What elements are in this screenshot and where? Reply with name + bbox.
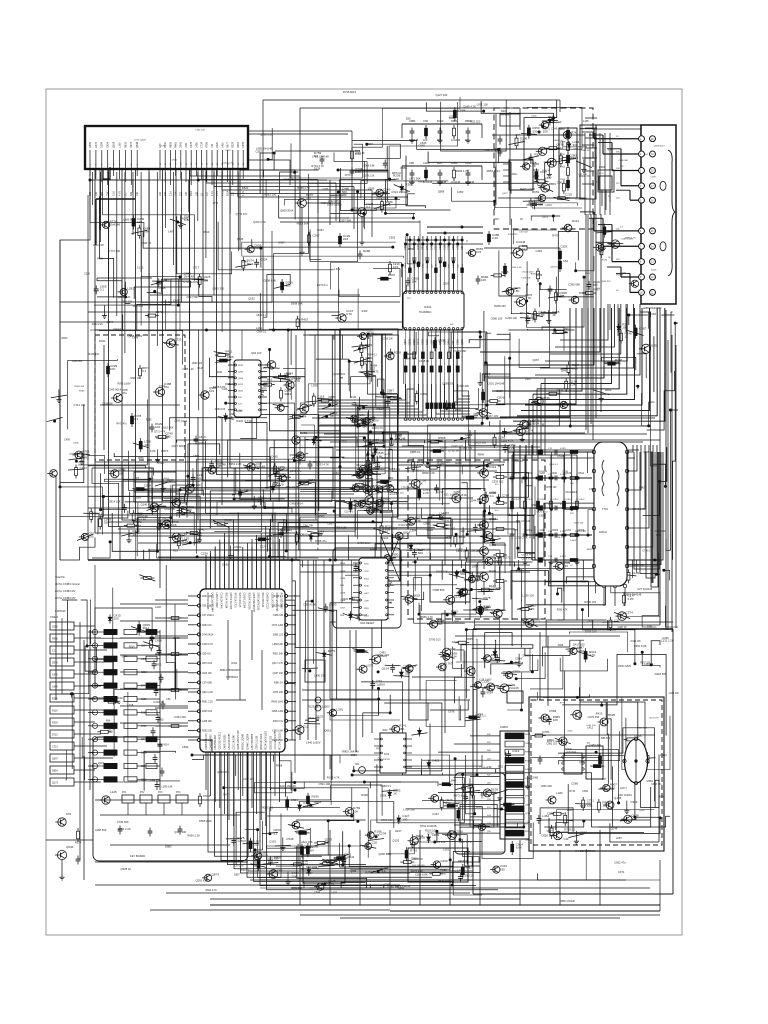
svg-text:R800: R800 [658,794,665,798]
svg-text:C472: C472 [95,141,98,148]
svg-text:Q858 100: Q858 100 [643,452,654,454]
svg-text:D722: D722 [52,734,58,737]
svg-text:C572 1u50V: C572 1u50V [134,140,147,142]
svg-text:100: 100 [155,425,160,429]
svg-text:IC8xx: IC8xx [511,173,518,176]
svg-text:R124/1u50V/L263: R124/1u50V/L263 [266,730,268,749]
svg-text:C384: C384 [410,528,417,532]
svg-text:C513 1K: C513 1K [164,507,175,511]
svg-text:R291: R291 [501,110,508,113]
svg-text:Q94 103: Q94 103 [251,351,262,355]
svg-text:Q246 103: Q246 103 [550,267,560,269]
svg-text:CN51: CN51 [650,313,657,316]
svg-text:R625: R625 [608,713,616,717]
svg-text:Q463 2.2K: Q463 2.2K [253,220,266,224]
svg-text:Q973: Q973 [579,761,586,764]
svg-text:L326: L326 [449,114,455,118]
svg-text:100: 100 [144,443,149,447]
svg-text:C20 47u: C20 47u [344,512,353,514]
svg-text:C468/47u/C733: C468/47u/C733 [206,733,208,750]
svg-text:1K: 1K [393,792,397,796]
svg-text:R501 56K: R501 56K [273,654,284,656]
svg-text:R508: R508 [438,436,446,440]
svg-text:1u50V: 1u50V [620,273,626,275]
svg-text:CAUTION: CAUTION [412,858,423,861]
svg-text:D713: D713 [417,339,420,345]
svg-text:R906: R906 [361,793,368,797]
svg-text:C221/9014/C613: C221/9014/C613 [220,731,222,749]
svg-text:R778: R778 [560,703,566,705]
svg-text:L457/330/D555: L457/330/D555 [252,733,254,749]
svg-text:D25: D25 [437,161,442,165]
svg-text:Q912 2.2K: Q912 2.2K [202,692,213,694]
svg-text:R572: R572 [334,856,342,860]
svg-text:330: 330 [193,486,198,490]
svg-text:R258 0.1: R258 0.1 [389,467,400,471]
svg-text:C478: C478 [190,141,193,148]
svg-text:6.8K: 6.8K [513,289,519,293]
svg-text:C598 56K: C598 56K [433,588,445,592]
svg-text:R247 1N4148: R247 1N4148 [279,784,296,788]
svg-text:D454 47u: D454 47u [202,625,213,627]
svg-text:L182: L182 [556,791,563,795]
svg-text:R672 6.8K: R672 6.8K [454,794,467,798]
svg-text:C999: C999 [132,336,138,339]
svg-text:D207/100/C15: D207/100/C15 [238,593,240,609]
svg-text:R52 222: R52 222 [470,120,481,124]
svg-text:9014: 9014 [227,190,230,196]
svg-text:R351 2.2K: R351 2.2K [229,462,242,466]
svg-text:Q994: Q994 [660,753,667,757]
svg-text:C151: C151 [432,812,439,816]
svg-text:R649: R649 [181,217,189,221]
svg-text:L874: L874 [334,267,340,271]
svg-text:PX3: PX3 [158,792,163,794]
svg-text:R934: R934 [286,371,294,375]
svg-text:2.2K: 2.2K [169,191,172,196]
svg-text:C119 103: C119 103 [521,278,531,280]
svg-text:D131 9014: D131 9014 [398,523,412,527]
svg-text:D949: D949 [448,339,451,345]
svg-text:C952 47u: C952 47u [614,860,626,864]
svg-text:D595: D595 [533,618,541,622]
svg-text:R341: R341 [99,339,106,343]
svg-text:D752: D752 [413,339,416,345]
svg-text:C96 10K: C96 10K [303,524,314,528]
svg-text:C183 0.1: C183 0.1 [381,784,392,788]
svg-text:L395 6.8K: L395 6.8K [162,786,173,789]
svg-text:L949 1K: L949 1K [355,151,365,155]
svg-text:C993: C993 [630,800,638,804]
svg-text:C199/10K/C441: C199/10K/C441 [220,593,222,610]
svg-text:Q885 2.2K: Q885 2.2K [118,295,131,299]
svg-text:R358 6.8K: R358 6.8K [290,453,303,457]
svg-text:9014: 9014 [261,854,268,858]
svg-text:D463 4.7K: D463 4.7K [223,162,234,164]
svg-text:Q191: Q191 [269,840,276,844]
svg-text:Q282: Q282 [198,441,205,445]
svg-text:4.7K: 4.7K [515,660,521,664]
svg-text:C673 100: C673 100 [381,818,393,822]
svg-text:R117/9014/L928: R117/9014/L928 [206,593,208,611]
svg-text:C741: C741 [159,384,166,388]
svg-text:6.2KV: 6.2KV [560,504,567,506]
svg-text:L68 2.2K: L68 2.2K [575,529,586,533]
svg-text:L889 6.8K: L889 6.8K [273,644,284,646]
svg-text:1N4148: 1N4148 [508,686,519,690]
svg-text:D570: D570 [52,662,58,665]
svg-text:D297: D297 [440,446,448,450]
svg-text:C764 9014: C764 9014 [403,664,417,668]
svg-text:Q903: Q903 [515,134,521,136]
svg-text:56K: 56K [101,191,104,196]
svg-text:L811: L811 [525,796,530,798]
svg-text:R280: R280 [52,698,58,701]
svg-text:Q106: Q106 [113,141,116,148]
svg-text:R874: R874 [161,449,169,453]
svg-text:R135 100: R135 100 [89,353,100,356]
svg-text:L933: L933 [312,384,318,388]
svg-text:C745 222: C745 222 [643,303,653,305]
svg-text:Q897: Q897 [404,338,407,345]
svg-text:R972: R972 [156,664,162,667]
svg-text:D655 2.2K: D655 2.2K [199,819,212,823]
svg-text:L773: L773 [213,202,219,205]
svg-text:L940 1u50V: L940 1u50V [306,741,321,745]
svg-text:L426: L426 [195,142,198,148]
svg-text:L652 100: L652 100 [586,725,596,727]
svg-text:Q943: Q943 [238,378,244,380]
svg-text:C445 4.7K: C445 4.7K [521,555,532,557]
svg-text:103: 103 [362,420,367,424]
svg-text:C333 222: C333 222 [492,480,504,484]
svg-text:L195 9014: L195 9014 [566,751,577,753]
svg-text:56K: 56K [399,727,404,731]
svg-text:Q568 2.2K: Q568 2.2K [260,132,273,136]
svg-text:R19: R19 [494,218,499,221]
svg-text:C27 6.8K: C27 6.8K [490,587,501,591]
svg-text:L159 100: L159 100 [523,594,535,598]
svg-text:L977: L977 [472,564,478,568]
svg-text:R228: R228 [232,141,235,148]
svg-text:R374: R374 [75,841,82,845]
svg-text:C481 1N4148: C481 1N4148 [312,155,329,159]
svg-text:C959 6.8K: C959 6.8K [303,603,316,607]
svg-text:1u50V: 1u50V [376,682,385,686]
svg-text:C573 1u50: C573 1u50 [272,625,284,627]
svg-text:0.1: 0.1 [142,369,147,373]
svg-text:Q173: Q173 [52,782,59,785]
svg-text:R14 1u50V: R14 1u50V [357,465,369,467]
svg-text:IC02: IC02 [382,728,388,732]
svg-text:R694: R694 [367,142,374,146]
svg-text:R651/4.7K/Q94: R651/4.7K/Q94 [224,593,226,610]
svg-text:PX: PX [136,477,140,480]
svg-text:R989: R989 [294,594,301,598]
svg-text:C647 103: C647 103 [486,414,498,418]
svg-text:R161 100: R161 100 [265,192,277,196]
svg-text:R497: R497 [593,288,601,292]
svg-text:Q328: Q328 [409,338,412,345]
svg-text:103: 103 [476,250,481,254]
svg-text:T701: T701 [602,507,608,511]
svg-text:10K: 10K [136,191,139,196]
svg-text:R877: R877 [227,141,230,148]
svg-text:C836 56K: C836 56K [102,402,113,405]
svg-text:10K: 10K [185,191,188,196]
svg-text:D388 1K: D388 1K [581,150,590,152]
svg-text:D192 2.2K: D192 2.2K [92,323,104,326]
svg-text:C654 4.7K: C654 4.7K [479,765,492,769]
svg-text:Q287: Q287 [532,358,539,362]
svg-text:R741: R741 [571,131,578,135]
svg-text:R86 56K: R86 56K [601,737,611,740]
svg-text:Q334 9014: Q334 9014 [341,597,355,601]
svg-text:Q843 4.7K: Q843 4.7K [632,507,645,511]
svg-text:C236: C236 [662,636,669,640]
svg-text:C656 330: C656 330 [273,615,284,617]
svg-text:L393 330: L393 330 [458,384,470,388]
svg-text:C863: C863 [470,549,478,553]
svg-text:L521: L521 [185,142,188,148]
svg-text:R659: R659 [553,530,559,532]
svg-text:Q646: Q646 [66,845,74,849]
svg-text:10K: 10K [616,168,620,170]
svg-text:R733 222: R733 222 [508,234,518,236]
svg-text:Q965/1N4148/Q58: Q965/1N4148/Q58 [252,593,254,613]
svg-text:D749 9014: D749 9014 [202,634,214,636]
svg-text:D473: D473 [476,805,483,809]
svg-text:C519: C519 [557,454,564,458]
svg-text:R108 2.2K: R108 2.2K [272,740,283,742]
svg-text:2.2K: 2.2K [608,150,613,152]
svg-text:R876 1u50V: R876 1u50V [118,383,132,386]
svg-text:D275: D275 [328,649,336,653]
svg-text:C482: C482 [332,471,339,475]
svg-text:C51: C51 [66,812,72,816]
svg-text:L132: L132 [312,866,319,870]
svg-text:D465: D465 [271,455,278,459]
svg-text:1K: 1K [330,414,334,418]
svg-text:2.2K: 2.2K [492,236,498,240]
svg-text:OTH: OTH [136,497,141,500]
svg-text:C767: C767 [502,493,510,497]
svg-text:D204: D204 [560,167,566,169]
svg-text:D227: D227 [395,829,402,833]
svg-text:C669 222: C669 222 [192,362,203,365]
svg-text:C949 0.1: C949 0.1 [553,140,563,142]
svg-text:R400: R400 [225,518,233,522]
svg-text:C27 1N4148: C27 1N4148 [637,587,653,591]
svg-text:R390: R390 [451,161,458,165]
svg-text:Q885 1K: Q885 1K [410,450,421,454]
svg-text:L908: L908 [525,840,531,842]
svg-text:L915: L915 [585,273,591,275]
svg-text:R408 1u50V: R408 1u50V [520,187,535,191]
svg-text:Q357 56K: Q357 56K [339,219,351,223]
svg-text:C374: C374 [626,611,634,615]
svg-text:D59 9014: D59 9014 [500,115,510,117]
svg-text:C353: C353 [457,190,464,194]
svg-text:4.7K: 4.7K [118,191,121,196]
svg-text:R146: R146 [602,259,608,261]
svg-text:C55: C55 [277,869,283,873]
svg-text:Q631: Q631 [238,391,244,393]
svg-text:R23: R23 [173,548,178,552]
svg-text:4.7K: 4.7K [211,191,214,196]
svg-text:D580: D580 [172,159,178,161]
svg-text:1N4148: 1N4148 [423,180,433,184]
svg-text:1u50V: 1u50V [570,540,577,542]
svg-text:L155: L155 [118,142,121,148]
svg-text:Q609 9014: Q609 9014 [280,208,294,212]
svg-text:Q290 6.8K: Q290 6.8K [378,852,391,856]
svg-text:C850: C850 [567,730,573,732]
svg-text:C841 103: C841 103 [122,301,133,304]
svg-text:R473: R473 [238,384,244,386]
svg-text:R232: R232 [146,419,152,422]
svg-text:Q928/1u50V/C798: Q928/1u50V/C798 [238,730,240,750]
svg-text:10K: 10K [387,392,392,396]
svg-text:C213 2.2K: C213 2.2K [93,244,105,247]
svg-text:L450: L450 [525,822,531,824]
svg-text:L687: L687 [616,836,622,840]
svg-text:R180 56K: R180 56K [531,273,541,275]
svg-text:L254: L254 [430,339,433,345]
svg-text:L353: L353 [370,547,376,551]
svg-text:C714 1u50V: C714 1u50V [183,280,198,284]
svg-text:L602 222: L602 222 [458,588,470,592]
svg-text:C441: C441 [426,244,429,250]
svg-text:R408: R408 [97,257,103,260]
svg-text:D942: D942 [639,488,645,490]
svg-text:R421: R421 [225,350,233,354]
svg-text:L613: L613 [546,203,552,207]
svg-text:Q663 222: Q663 222 [601,281,611,283]
svg-text:C310 1K: C310 1K [153,700,164,704]
svg-text:C741 6.8K: C741 6.8K [272,730,283,732]
svg-text:C85: C85 [409,161,414,165]
svg-text:0.1: 0.1 [134,417,139,421]
svg-text:C645: C645 [418,143,425,147]
svg-text:PX1: PX1 [122,792,127,794]
svg-text:56K: 56K [593,283,598,287]
svg-text:C593 1K: C593 1K [141,241,152,245]
svg-text:D204: D204 [465,433,473,437]
svg-text:TDA8361N: TDA8361N [419,311,432,314]
svg-text:CXP8116: CXP8116 [55,610,66,613]
svg-text:D621: D621 [226,150,232,152]
svg-text:C639: C639 [254,244,262,248]
svg-text:D205: D205 [651,270,657,272]
svg-text:IC03: IC03 [362,615,368,617]
svg-text:22 Pin CX4BV MV: 22 Pin CX4BV MV [55,597,76,600]
svg-text:C873 10K: C873 10K [273,692,284,694]
svg-text:R835: R835 [466,637,474,641]
svg-text:Q357 4.7K: Q357 4.7K [459,840,472,844]
svg-text:X: X [466,239,468,243]
svg-text:56K: 56K [616,151,620,153]
svg-text:C519 10K: C519 10K [383,339,394,341]
svg-text:1N4148: 1N4148 [137,515,148,519]
svg-text:C481 9014: C481 9014 [290,502,304,506]
svg-text:R282 100: R282 100 [365,870,377,874]
svg-text:R843: R843 [62,337,68,340]
svg-text:R806: R806 [169,141,172,148]
svg-text:L931 100: L931 100 [477,103,489,107]
svg-text:Q327: Q327 [502,193,508,195]
svg-text:103: 103 [258,499,263,503]
svg-text:C499: C499 [64,438,70,441]
svg-text:4.7K: 4.7K [440,872,446,876]
svg-text:6.2KV: 6.2KV [560,556,567,558]
svg-text:C589: C589 [571,782,578,786]
svg-text:56K: 56K [342,190,347,194]
svg-text:Q800: Q800 [300,533,308,537]
svg-text:Q661: Q661 [324,729,331,733]
svg-text:Q139: Q139 [639,810,645,812]
svg-text:C97: C97 [547,829,552,833]
svg-text:6.8K: 6.8K [516,846,522,850]
svg-text:D987: D987 [278,241,285,245]
svg-text:C300 47u: C300 47u [321,202,332,205]
svg-text:C556 100: C556 100 [633,563,645,567]
svg-text:C535: C535 [380,441,386,443]
svg-text:Q127 100: Q127 100 [436,93,448,97]
svg-text:100: 100 [543,130,548,134]
svg-text:L391: L391 [336,707,343,711]
svg-text:R491: R491 [237,141,240,148]
svg-text:R270 0.1: R270 0.1 [317,283,328,287]
svg-text:R940 100: R940 100 [133,305,144,308]
svg-text:R983/0.1/Q946: R983/0.1/Q946 [243,733,245,749]
svg-text:6.2KV: 6.2KV [579,499,586,501]
svg-text:C529: C529 [561,245,568,249]
svg-text:FA0614: FA0614 [599,531,608,534]
svg-text:D67 222: D67 222 [520,231,529,233]
svg-text:C12: C12 [303,724,309,728]
svg-text:Q252: Q252 [248,296,255,300]
svg-text:D868 10K: D868 10K [278,528,290,532]
svg-text:Q997: Q997 [52,758,59,761]
svg-text:D776: D776 [452,244,455,250]
svg-text:R338 4.7K: R338 4.7K [372,428,383,430]
svg-text:1N4148: 1N4148 [184,275,195,279]
svg-text:1K: 1K [625,335,629,339]
svg-text:2.2K: 2.2K [628,597,634,601]
svg-text:L717: L717 [193,266,199,270]
svg-text:C20: C20 [372,841,378,845]
svg-text:R45 2.2K: R45 2.2K [512,267,522,269]
svg-text:D916: D916 [392,500,398,502]
svg-text:C680 100: C680 100 [491,317,503,321]
svg-text:R96: R96 [553,473,558,475]
svg-text:C952: C952 [389,236,396,240]
svg-text:100: 100 [553,718,558,722]
svg-text:100: 100 [385,528,390,532]
svg-text:CN201: CN201 [50,615,59,619]
svg-text:1N4148: 1N4148 [616,274,624,276]
svg-text:C303: C303 [443,282,450,286]
svg-text:R941 1K: R941 1K [274,682,283,684]
svg-text:L405: L405 [221,142,224,148]
svg-text:L29: L29 [460,529,465,533]
svg-text:1u50V: 1u50V [306,848,315,852]
svg-text:Q536: Q536 [368,186,375,190]
svg-text:C456 56K: C456 56K [72,360,83,363]
svg-text:R859: R859 [549,182,557,186]
svg-text:C525: C525 [157,461,164,465]
